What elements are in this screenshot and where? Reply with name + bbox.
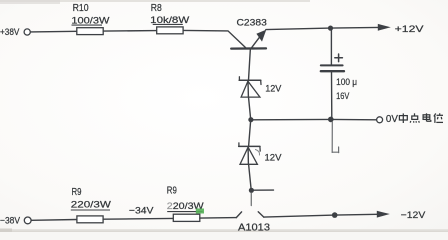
wire -38V terminal to R9a: [31, 219, 77, 222]
node junction 0V left: [248, 117, 253, 122]
transistor Q1 base lead down: [249, 50, 251, 80]
green scan artifact: [196, 209, 204, 214]
transistor Q2 A1013 right flare: [258, 212, 264, 217]
wire 0V node to terminal: [331, 118, 377, 120]
zener D2 lead through: [247, 147, 249, 164]
svg-text:+12V: +12V: [395, 24, 425, 35]
svg-text:R10: R10: [73, 3, 89, 14]
svg-text:100 μ: 100 μ: [336, 77, 357, 88]
wire R8 to transistor collector: [183, 30, 246, 47]
node junction base A1013: [249, 188, 254, 193]
svg-text:R9: R9: [72, 187, 82, 198]
zener diode D2 cathode bar: [239, 145, 260, 147]
CJK glyph dian: [410, 113, 419, 122]
wire emitter to +12V node: [266, 28, 331, 30]
wire R10 to R8: [103, 30, 157, 33]
svg-text:A1013: A1013: [238, 223, 270, 233]
transistor Q1 C2383 base bar: [231, 47, 266, 49]
capacitor C2 (faded) lead below 0V node: [332, 122, 338, 153]
wire R9a to R9b: [103, 217, 173, 220]
resistor R10: [77, 28, 103, 35]
svg-text:C2383: C2383: [237, 17, 267, 28]
resistor R9b: [173, 214, 200, 221]
zener D2 left bend up: [238, 143, 240, 147]
wire D1 anode to 0V node: [249, 97, 251, 119]
wire D2 anode to base node: [249, 164, 252, 190]
terminal +38V: [24, 29, 30, 35]
base lead A1013 (faded): [250, 193, 252, 206]
emitter arrowhead of Q1: [256, 30, 266, 42]
node junction at +12V rail: [328, 26, 333, 31]
arrowhead +12V: [378, 24, 391, 31]
wire +38V terminal to R10: [31, 30, 77, 33]
transistor Q1 emitter lead: [252, 37, 260, 48]
svg-text:100/3W: 100/3W: [71, 14, 109, 25]
wire 0V node down to zener D2: [249, 120, 251, 146]
svg-text:−38V: −38V: [0, 216, 21, 226]
arrowhead -12V: [377, 211, 390, 218]
CJK glyph zhong: [399, 113, 407, 123]
node junction 0V right: [328, 117, 334, 123]
capacitor C1 lead bottom: [331, 72, 333, 119]
wire node to -12V arrow: [335, 213, 377, 216]
svg-text:10k/8W: 10k/8W: [150, 14, 189, 25]
zener D1 right bend down: [260, 80, 262, 84]
zener D2 right bend down: [259, 147, 261, 152]
svg-text:R8: R8: [151, 3, 162, 14]
svg-text:16V: 16V: [336, 91, 350, 102]
resistor R8: [157, 27, 183, 34]
svg-text:220/3W: 220/3W: [71, 199, 111, 210]
zener D1 left bend up: [238, 77, 240, 81]
zener D2 triangle: [240, 147, 257, 164]
capacitor C1 bottom plate: [321, 70, 344, 72]
zener D1 lead through: [247, 81, 249, 97]
svg-text:+38V: +38V: [0, 27, 19, 37]
wire Q2 to -12V node: [264, 215, 335, 217]
capacitor C1 plus sign: [335, 54, 343, 62]
zener diode D1 cathode bar: [239, 79, 261, 81]
capacitor C1 lead top: [330, 28, 332, 65]
svg-text:0V: 0V: [386, 114, 398, 125]
svg-text:−34V: −34V: [129, 206, 154, 217]
zener D1 triangle: [241, 81, 260, 97]
node junction -12V rail: [332, 212, 338, 218]
svg-text:12V: 12V: [265, 84, 282, 95]
transistor Q2 A1013 left flare: [236, 212, 241, 218]
wire stub right of base node: [251, 189, 273, 191]
CJK glyph dian2: [423, 113, 431, 121]
wire 0V line left to right node: [251, 118, 331, 120]
wire node to +12V arrow: [331, 26, 380, 29]
resistor R9a: [77, 216, 103, 223]
terminal 0V: [377, 117, 383, 123]
CJK glyph wei: [434, 113, 443, 123]
terminal -38V: [24, 217, 31, 224]
svg-text:R9: R9: [167, 186, 177, 197]
zener D2 scan artifact arc: [256, 150, 260, 156]
svg-text:−12V: −12V: [401, 210, 426, 221]
capacitor C1 top plate: [321, 64, 343, 66]
wire R9b to Q2: [200, 217, 237, 220]
svg-text:12V: 12V: [265, 152, 283, 163]
